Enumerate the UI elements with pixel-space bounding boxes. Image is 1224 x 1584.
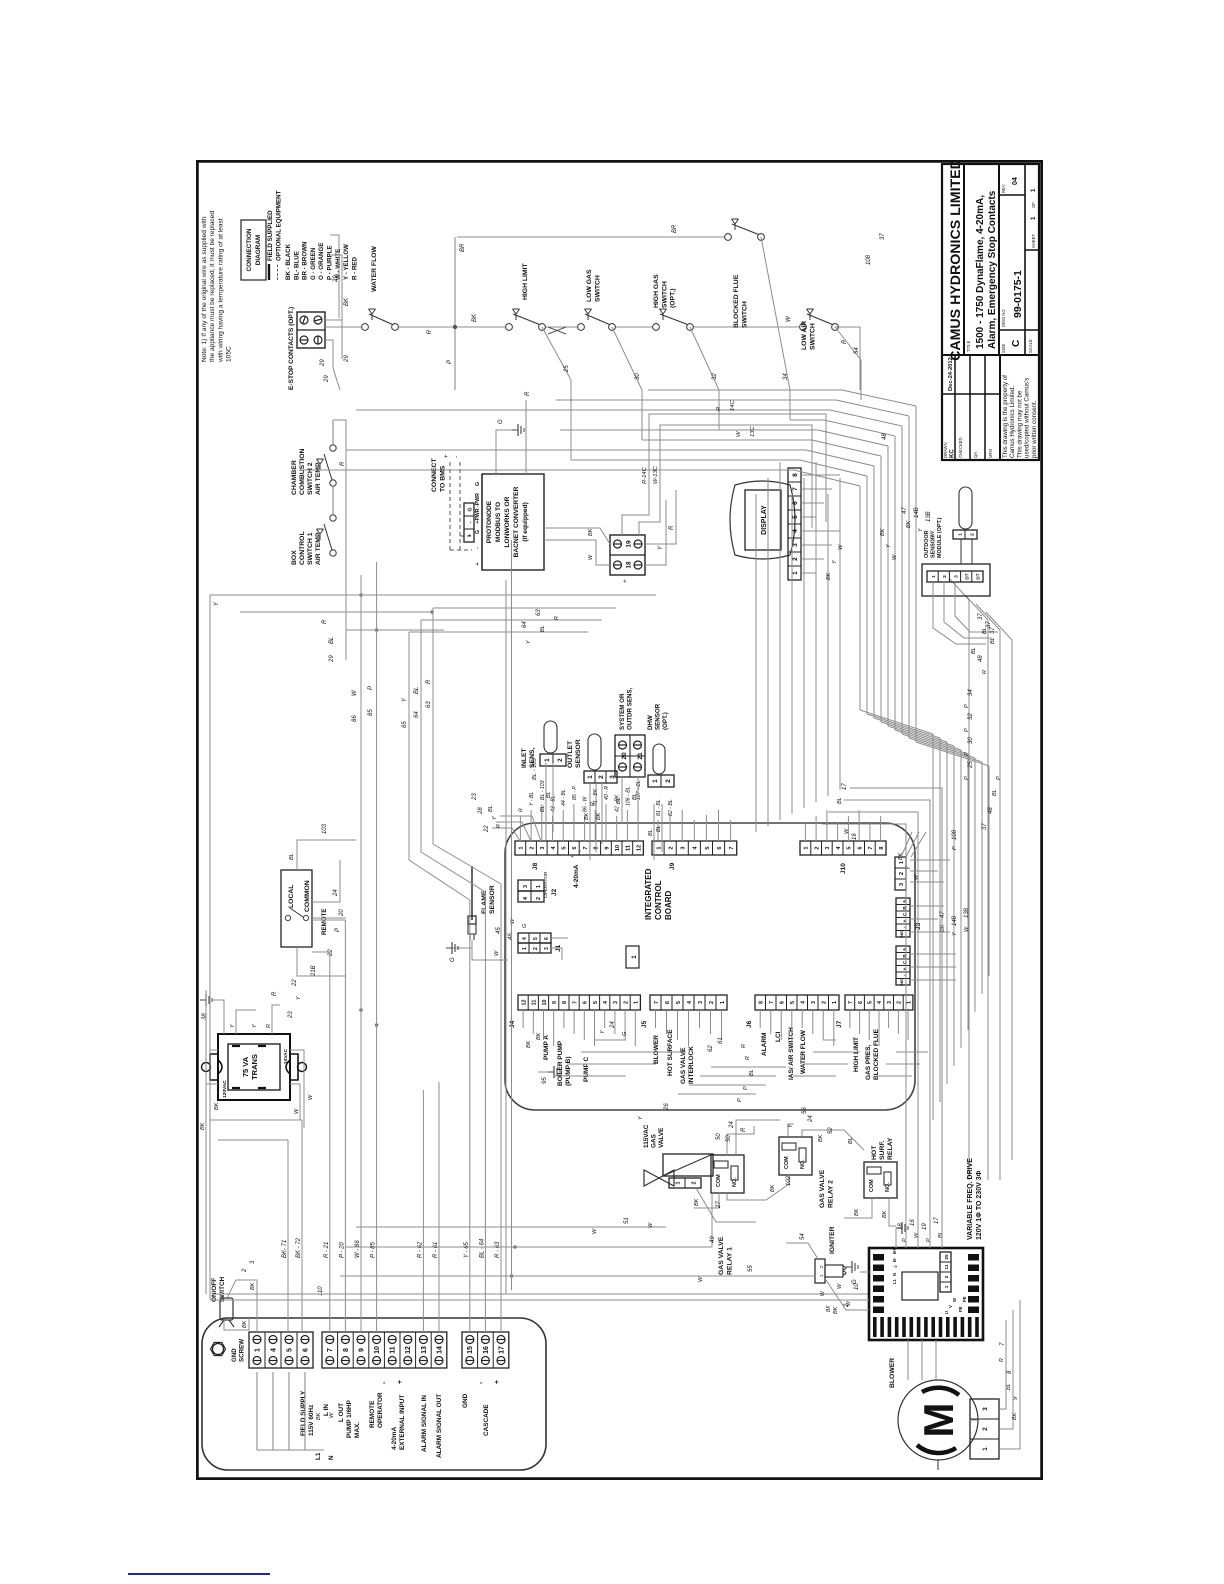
svg-text:44 - BL: 44 - BL — [561, 789, 567, 806]
wires J8 pins — [519, 816, 521, 841]
field wires in box — [256, 1372, 258, 1450]
blue underline bottom left — [128, 1573, 270, 1575]
blower wires to vfd — [907, 1340, 909, 1380]
svg-text:W: W — [736, 431, 742, 437]
svg-text:P: P — [902, 1238, 908, 1242]
svg-text:4: 4 — [687, 1001, 693, 1004]
svg-text:3: 3 — [811, 1001, 817, 1004]
svg-text:with wiring having a temperatu: with wiring having a temperature rating … — [217, 218, 224, 363]
wires J5 pins — [655, 1010, 657, 1028]
svg-text:P: P — [743, 1086, 749, 1090]
svg-text:R - RED: R - RED — [351, 256, 358, 280]
svg-text:NO.: NO. — [800, 1159, 806, 1169]
svg-text:16: 16 — [483, 1346, 490, 1354]
svg-text:U: U — [944, 1311, 949, 1314]
svg-text:OF: OF — [1031, 202, 1036, 208]
gas valve terminals — [669, 1178, 701, 1188]
svg-text:6: 6 — [583, 1001, 589, 1004]
svg-text:1: 1 — [944, 1285, 949, 1288]
svg-text:8: 8 — [343, 1348, 350, 1352]
flame sensor — [471, 866, 473, 920]
svg-text:SHEET: SHEET — [1031, 234, 1036, 248]
svg-text:R-14C: R-14C — [642, 466, 648, 484]
svg-text:BL: BL — [632, 793, 638, 800]
wires local box — [297, 840, 356, 870]
svg-text:W: W — [352, 689, 358, 696]
svg-text:G: G — [475, 530, 481, 534]
terminal strip 7-14 — [322, 1332, 447, 1368]
blocked flue switch — [725, 234, 732, 241]
svg-text:BR: BR — [672, 224, 678, 233]
svg-text:⏚: ⏚ — [892, 1264, 899, 1269]
svg-text:115VAC: 115VAC — [643, 1124, 650, 1148]
svg-text:J4: J4 — [509, 1020, 516, 1028]
svg-text:50: 50 — [726, 1135, 732, 1142]
svg-text:BL: BL — [414, 687, 420, 694]
vfd terminals top row — [873, 1307, 884, 1314]
svg-text:+: + — [622, 579, 629, 583]
svg-text:86 - W: 86 - W — [583, 796, 589, 812]
svg-text:L1: L1 — [315, 1452, 322, 1460]
svg-text:DT: DT — [976, 573, 982, 579]
svg-text:1: 1 — [675, 1181, 681, 1185]
svg-text:MODBUS TO: MODBUS TO — [495, 502, 502, 542]
svg-text:+: + — [494, 1380, 501, 1384]
svg-text:W: W — [588, 554, 594, 560]
wires display strip — [801, 572, 816, 574]
svg-text:BOILER PUMP: BOILER PUMP — [557, 1040, 564, 1086]
svg-text:NO.: NO. — [732, 1177, 738, 1187]
svg-text:40 - R: 40 - R — [604, 786, 610, 800]
svg-text:BK: BK — [906, 520, 912, 528]
gnd screw symbol — [213, 1344, 224, 1355]
svg-text:PE: PE — [962, 1296, 967, 1302]
svg-text:CONNECT: CONNECT — [431, 458, 438, 492]
svg-text:14B: 14B — [914, 507, 920, 518]
svg-text:8: 8 — [792, 473, 799, 477]
wires J4 J5 relay drops — [553, 1075, 626, 1077]
svg-text:Y: Y — [906, 866, 912, 870]
svg-text:HIGH LIMIT: HIGH LIMIT — [853, 1037, 860, 1072]
svg-text:5: 5 — [676, 1001, 682, 1004]
svg-text:P - 20: P - 20 — [340, 1242, 346, 1258]
svg-text:QA: QA — [973, 452, 978, 458]
connector J9 — [652, 841, 737, 855]
wire top connect — [454, 237, 456, 390]
svg-text:11: 11 — [626, 845, 632, 851]
svg-text:138: 138 — [964, 907, 970, 918]
vfd ground top — [860, 1271, 869, 1273]
svg-text:G: G — [622, 1031, 628, 1036]
svg-text:G - GREEN: G - GREEN — [310, 247, 317, 280]
inlet sensor — [540, 754, 566, 766]
svg-text:V: V — [948, 1305, 953, 1308]
svg-text:W: W — [846, 1300, 852, 1306]
svg-text:+: + — [467, 534, 473, 537]
svg-text:1: 1 — [1031, 188, 1037, 192]
svg-text:8: 8 — [594, 846, 600, 849]
svg-text:BOARD: BOARD — [664, 890, 673, 920]
svg-text:J9: J9 — [669, 862, 676, 870]
svg-text:18: 18 — [898, 1223, 904, 1230]
svg-text:R: R — [496, 824, 502, 828]
svg-text:W: W — [786, 315, 792, 322]
svg-text:(OPT.): (OPT.) — [662, 712, 669, 730]
svg-text:CHAMBER: CHAMBER — [291, 460, 298, 495]
protonode aux strip — [464, 503, 474, 542]
svg-text:55: 55 — [748, 1265, 754, 1272]
svg-text:12: 12 — [521, 1000, 527, 1006]
svg-text:Y: Y — [658, 545, 664, 550]
svg-text:2: 2 — [982, 1427, 989, 1431]
svg-text:SENSOR: SENSOR — [655, 703, 662, 730]
svg-text:5: 5 — [533, 937, 539, 940]
transformer 75VA — [218, 1034, 290, 1100]
svg-text:14C: 14C — [730, 400, 736, 411]
svg-text:17: 17 — [498, 1346, 505, 1354]
svg-text:P - 85: P - 85 — [371, 1242, 377, 1258]
connector J5 — [650, 995, 727, 1010]
svg-text:9: 9 — [552, 1001, 558, 1004]
svg-text:OPERATOR: OPERATOR — [377, 1392, 384, 1428]
svg-text:W: W — [952, 1298, 957, 1302]
svg-text:4: 4 — [522, 937, 528, 940]
svg-text:LOW GAS: LOW GAS — [586, 269, 593, 302]
wire 32 diagonal — [690, 327, 719, 430]
svg-text:4: 4 — [523, 896, 529, 900]
svg-text:29: 29 — [320, 359, 326, 367]
vfd inner box — [902, 1272, 938, 1300]
svg-text:32: 32 — [968, 713, 974, 720]
svg-text:This drawing may not be: This drawing may not be — [1016, 390, 1023, 458]
svg-text:BK: BK — [596, 812, 602, 820]
svg-text:7: 7 — [792, 487, 799, 491]
svg-text:5: 5 — [705, 846, 711, 849]
svg-text:6: 6 — [858, 1001, 864, 1004]
j3 fan diagonals — [901, 832, 912, 857]
wires J4 pins — [522, 1010, 524, 1028]
svg-text:P: P — [952, 846, 958, 850]
svg-text:82 - BL: 82 - BL — [668, 799, 674, 816]
svg-text:BK: BK — [694, 1198, 700, 1206]
svg-text:BK: BK — [770, 1184, 776, 1192]
svg-text:R: R — [266, 1024, 272, 1028]
svg-text:13: 13 — [421, 1346, 428, 1354]
svg-text:30: 30 — [635, 373, 641, 380]
svg-text:BK: BK — [472, 313, 478, 322]
svg-text:27: 27 — [716, 1201, 722, 1209]
svg-text:BL: BL — [982, 627, 988, 634]
svg-text:4: 4 — [693, 846, 699, 850]
svg-text:102: 102 — [786, 1175, 792, 1186]
svg-text:-: - — [467, 521, 473, 523]
svg-text:R: R — [518, 808, 524, 812]
svg-text:SCALE: SCALE — [1028, 339, 1033, 353]
svg-text:R: R — [741, 1127, 747, 1132]
border frame — [197, 161, 1043, 1480]
low air switch — [800, 324, 807, 331]
svg-text:2: 2 — [819, 1265, 824, 1268]
svg-text:1: 1 — [804, 846, 810, 849]
svg-text:COM: COM — [869, 1179, 875, 1192]
svg-text:20: 20 — [621, 752, 628, 760]
svg-text:SENSOR: SENSOR — [930, 535, 936, 558]
svg-text:61: 61 — [718, 1037, 724, 1044]
vfd strip 1 2 11 25 — [940, 1252, 951, 1292]
svg-text:23: 23 — [472, 793, 478, 801]
wire after low air — [835, 327, 860, 390]
svg-text:W: W — [837, 1283, 843, 1289]
svg-text:TRANS: TRANS — [250, 1054, 259, 1080]
svg-text:prior written consent.: prior written consent. — [1031, 400, 1038, 458]
connector J2 — [518, 891, 544, 902]
svg-text:J7: J7 — [836, 1020, 843, 1028]
vfd wires top — [826, 1280, 869, 1310]
svg-text:5: 5 — [286, 1348, 293, 1352]
svg-text:25: 25 — [944, 1254, 949, 1260]
svg-text:(PUMP B): (PUMP B) — [565, 1057, 572, 1087]
wires on-off — [227, 1280, 257, 1332]
connector J7 — [845, 995, 913, 1010]
ground flame — [446, 948, 472, 960]
svg-text:54: 54 — [800, 1233, 806, 1240]
wires J6 bus hookup — [793, 1075, 836, 1077]
svg-text:Y: Y — [832, 560, 838, 564]
svg-text:SWITCH: SWITCH — [741, 301, 748, 328]
svg-text:R: R — [590, 802, 596, 806]
svg-text:3: 3 — [792, 543, 799, 547]
svg-text:BL: BL — [329, 637, 335, 644]
svg-text:56: 56 — [802, 1107, 808, 1114]
svg-text:4: 4 — [836, 846, 842, 850]
svg-text:J5: J5 — [641, 1020, 648, 1028]
svg-text:W: W — [510, 918, 516, 924]
wire 55 igniter — [340, 1275, 815, 1277]
wire main interlock chain — [325, 326, 362, 328]
svg-text:P: P — [737, 1098, 743, 1102]
svg-text:Y: Y — [252, 1024, 258, 1028]
svg-text:COMMON: COMMON — [304, 880, 311, 912]
svg-text:E-STOP CONTACTS (OPT.): E-STOP CONTACTS (OPT.) — [288, 307, 295, 390]
wires J1 — [551, 948, 562, 960]
svg-text:11: 11 — [532, 1000, 538, 1006]
svg-text:12: 12 — [405, 1346, 412, 1354]
svg-text:P: P — [964, 728, 970, 732]
svg-text:B+: B+ — [892, 1248, 897, 1254]
e-stop contacts block — [297, 312, 325, 348]
svg-text:BL - 103: BL - 103 — [540, 780, 546, 800]
svg-text:7: 7 — [868, 846, 874, 849]
svg-text:R - 63: R - 63 — [495, 1241, 501, 1258]
svg-text:1: 1 — [792, 571, 799, 575]
svg-text:1: 1 — [631, 955, 638, 959]
hot surface relay — [864, 1162, 897, 1198]
svg-text:2: 2 — [691, 1181, 697, 1184]
svg-text:CONNECTION: CONNECTION — [246, 228, 253, 271]
svg-text:3: 3 — [540, 846, 546, 849]
svg-text:GAS PRES,: GAS PRES, — [865, 1044, 872, 1080]
svg-text:G: G — [498, 419, 504, 424]
svg-text:12: 12 — [636, 845, 642, 851]
wire 29BL vertical — [346, 629, 444, 631]
protonode terminal row — [481, 474, 483, 570]
svg-text:6: 6 — [780, 1001, 786, 1004]
svg-text:48: 48 — [988, 807, 994, 814]
svg-text:N: N — [892, 1273, 897, 1276]
svg-text:50: 50 — [716, 1133, 722, 1140]
svg-text:BLOCKED FLUE: BLOCKED FLUE — [733, 274, 740, 328]
display connector strip — [788, 468, 801, 580]
svg-text:FIELD SUPPLIED: FIELD SUPPLIED — [267, 210, 274, 261]
long wires 2 and 10 — [210, 1299, 869, 1301]
svg-text:28: 28 — [478, 807, 484, 815]
svg-text:-: - — [381, 1381, 388, 1384]
svg-text:6: 6 — [572, 846, 578, 849]
svg-text:DHW: DHW — [647, 715, 654, 730]
svg-text:1500 - 1750 DynaFlame, 4-20mA,: 1500 - 1750 DynaFlame, 4-20mA, — [975, 195, 986, 349]
svg-text:65: 65 — [402, 721, 408, 728]
svg-text:BK: BK — [880, 528, 886, 536]
svg-text:OUTDR SENS,: OUTDR SENS, — [627, 687, 634, 730]
connector J10 — [800, 841, 886, 855]
title block — [942, 164, 1039, 460]
svg-text:7: 7 — [769, 1001, 775, 1004]
junction dots — [359, 593, 363, 597]
wire 18 19 to protonode — [544, 540, 610, 565]
svg-text:BL: BL — [540, 625, 546, 632]
svg-text:SWITCH: SWITCH — [809, 323, 816, 350]
svg-text:BK: BK — [200, 1122, 206, 1130]
transformer wires — [206, 1084, 218, 1140]
svg-text:BK: BK — [316, 1412, 322, 1420]
wires J3 drops — [910, 931, 950, 933]
svg-text:L1: L1 — [892, 1278, 897, 1284]
wire R-14C — [622, 414, 826, 535]
wire right bus staircase — [300, 469, 794, 471]
svg-text:the appliance must be replaced: the appliance must be replaced, it must … — [209, 211, 216, 362]
svg-text:22: 22 — [484, 825, 490, 833]
svg-text:O - ORANGE: O - ORANGE — [318, 243, 325, 280]
svg-text:108: 108 — [952, 829, 958, 840]
svg-text:6: 6 — [857, 846, 863, 849]
svg-text:64: 64 — [414, 711, 420, 718]
gas valve relay 2 — [779, 1137, 812, 1175]
svg-text:W: W — [294, 1108, 300, 1114]
integrated control board outline — [505, 823, 915, 1110]
blower strip — [970, 1399, 999, 1459]
svg-text:C: C — [1011, 340, 1022, 347]
svg-text:85: 85 — [368, 709, 374, 716]
svg-text:1: 1 — [982, 1447, 989, 1451]
chain crossing X — [548, 327, 566, 334]
svg-text:G: G — [475, 482, 481, 486]
wire 29 run — [333, 420, 346, 660]
svg-text:DWG NO: DWG NO — [1001, 309, 1006, 327]
svg-text:R: R — [427, 329, 433, 334]
svg-text:Camus Hydronics Limited.: Camus Hydronics Limited. — [1009, 386, 1016, 458]
vfd ground right — [895, 1228, 897, 1248]
svg-text:Y: Y — [526, 640, 532, 644]
svg-text:15: 15 — [467, 1346, 474, 1354]
svg-text:2: 2 — [822, 1001, 828, 1004]
svg-text:L OUT: L OUT — [338, 1403, 345, 1422]
svg-text:7: 7 — [729, 846, 735, 849]
svg-text:1: 1 — [819, 1274, 824, 1277]
svg-text:24: 24 — [610, 1021, 616, 1029]
svg-text:INTERLOCK: INTERLOCK — [688, 1046, 695, 1084]
svg-text:22: 22 — [328, 949, 334, 957]
svg-text:OUTDOOR: OUTDOOR — [924, 530, 930, 558]
svg-text:CASCADE: CASCADE — [483, 1404, 490, 1436]
svg-text:3: 3 — [887, 1001, 893, 1004]
svg-text:G: G — [852, 1279, 858, 1284]
svg-text:1: 1 — [536, 885, 542, 888]
svg-text:R: R — [669, 525, 675, 530]
svg-text:W: W — [914, 1232, 920, 1238]
svg-text:4: 4 — [270, 1348, 277, 1352]
svg-text:BK: BK — [214, 1102, 220, 1110]
connector J3 — [895, 857, 906, 890]
svg-text:ON/OFF: ON/OFF — [211, 1278, 218, 1302]
svg-text:BK: BK — [854, 1208, 860, 1216]
low gas switch — [578, 324, 585, 331]
svg-text:J10: J10 — [840, 863, 847, 874]
svg-text:64: 64 — [522, 621, 528, 628]
wire protonode R — [525, 400, 527, 474]
svg-text:9: 9 — [604, 846, 610, 849]
svg-text:Y: Y — [402, 697, 408, 702]
wires relays — [711, 1167, 713, 1169]
svg-text:11: 11 — [390, 1346, 397, 1354]
svg-text:HOT: HOT — [871, 1145, 878, 1160]
terminal strip 15-17 — [462, 1332, 509, 1368]
svg-text:R: R — [716, 406, 722, 411]
svg-text:-: - — [475, 547, 481, 549]
wires bottom long runs — [968, 600, 970, 1180]
svg-text:1: 1 — [254, 1348, 261, 1352]
wires J6 pins — [759, 1010, 761, 1028]
svg-text:3: 3 — [698, 1001, 704, 1004]
svg-text:Y - 65: Y - 65 — [464, 1241, 470, 1258]
svg-text:L IN: L IN — [323, 1404, 330, 1416]
svg-text:10: 10 — [615, 845, 621, 851]
svg-text:R: R — [554, 616, 560, 620]
svg-text:62: 62 — [708, 1045, 714, 1052]
svg-text:-: - — [454, 456, 460, 458]
svg-text:99-0175-1: 99-0175-1 — [1012, 270, 1024, 318]
svg-text:85 - P: 85 - P — [572, 786, 578, 800]
svg-text:6: 6 — [544, 937, 550, 940]
svg-text:R: R — [426, 679, 432, 684]
bottom runs top jogs — [949, 578, 969, 600]
svg-text:6: 6 — [717, 846, 723, 849]
svg-text:54: 54 — [854, 347, 860, 354]
svg-text:M: M — [915, 1403, 962, 1438]
svg-text:W: W — [698, 1276, 704, 1282]
svg-text:LONWORKS OR: LONWORKS OR — [504, 496, 511, 547]
svg-text:17: 17 — [842, 783, 848, 790]
svg-text:BK: BK — [833, 1306, 839, 1314]
svg-text:49: 49 — [710, 1236, 716, 1243]
svg-text:86: 86 — [352, 715, 358, 722]
svg-text:1: 1 — [587, 775, 594, 779]
svg-text:GAS: GAS — [651, 1133, 658, 1148]
marker box 1 — [626, 946, 639, 968]
svg-text:108: 108 — [866, 254, 872, 265]
svg-text:3: 3 — [899, 882, 905, 886]
svg-text:22: 22 — [292, 979, 298, 987]
wire 25 diagonal — [542, 327, 571, 460]
